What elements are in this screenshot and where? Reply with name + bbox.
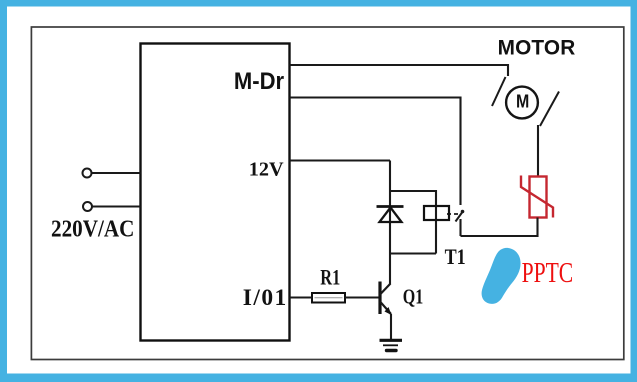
svg-text:PPTC: PPTC [522,258,574,289]
relay coil T1 [424,206,449,220]
wire: PPTC bottom to relay contact [461,218,538,237]
wire: I/01 pin to R1 [290,296,313,298]
PPTC thermistor (red symbol) [521,176,553,218]
label Q1 [403,285,424,309]
transistor Q1 [380,282,392,316]
wire: branch to relay coil top [390,191,436,254]
ground [380,340,403,350]
wire: emitter down to ground [390,314,392,339]
wire: bottom terminal to box [92,205,141,207]
wire: relay coil bottom return [390,252,436,254]
annotation blob (cyan highlight) [482,248,521,304]
pin label M-Dr [234,68,284,95]
wire: M-Dr pin to motor left contact [290,65,509,76]
pin label I/01 [243,285,286,311]
resistor R1 [312,293,345,303]
wire: 12V pin to collector node [290,159,391,161]
label PPTC (red annotation) [522,258,574,289]
svg-text:M: M [516,91,529,112]
svg-text:R1: R1 [320,265,340,290]
controller box U1 [141,44,290,341]
pin label 12V [249,158,284,180]
wire: top terminal to box [92,172,141,174]
wire: M-Dr second pin to relay contact [290,98,461,206]
svg-text:T1: T1 [445,244,466,269]
svg-text:MOTOR: MOTOR [498,37,576,60]
wire: main vertical 12V rail down to transistor [389,161,391,285]
relay T1 contact blade [456,210,465,236]
motor M1 circle [506,87,538,119]
wire: R1 to Q1 base [345,296,379,298]
motor left switch contact [492,77,506,106]
label MOTOR [498,37,576,60]
motor right switch contact [540,92,559,127]
svg-text:Q1: Q1 [403,285,424,309]
svg-text:12V: 12V [249,158,284,180]
wire: right contact down to PPTC [537,125,539,177]
svg-text:I/01: I/01 [243,285,286,311]
terminal circle bottom (220V input) [83,202,92,211]
label R1 [320,265,340,290]
label T1 [445,244,466,269]
terminal circle top (220V input) [83,169,92,178]
relay linkage (dashed) [447,213,459,215]
flyback diode D1 [377,207,404,223]
svg-text:220V/AC: 220V/AC [51,217,134,243]
label 220V/AC [51,217,134,243]
svg-text:M-Dr: M-Dr [234,68,284,95]
